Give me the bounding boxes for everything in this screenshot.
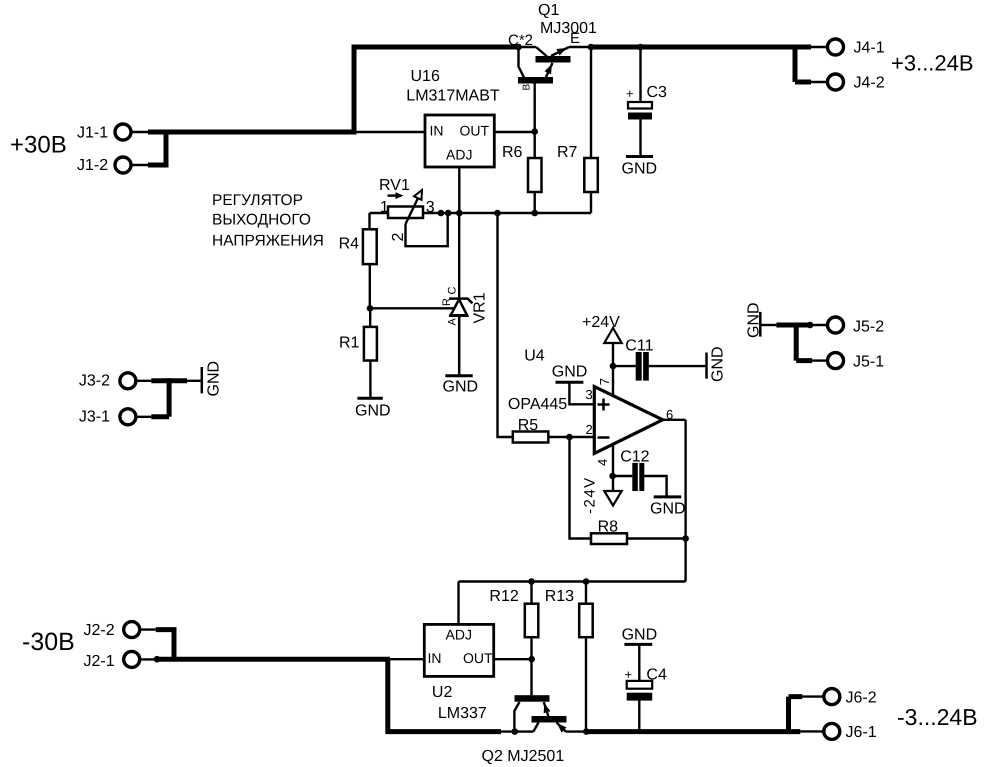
wire output vertical [684,420,686,582]
svg-text:НАПРЯЖЕНИЯ: НАПРЯЖЕНИЯ [212,233,324,250]
wire rail thin segment Q1 emitter to R7 [569,46,591,48]
wire thick drop to bottom rail [388,659,501,734]
svg-text:ВЫХОДНОГО: ВЫХОДНОГО [212,212,311,229]
wire J5-2 thin stub [810,324,828,326]
node inverting input junction [566,434,573,441]
wire U2 IN thin [390,658,424,660]
wire J5-1 thin stub [812,359,827,361]
wire pin7 vertical [612,336,614,396]
wire J6-2 thin stub [802,695,824,697]
svg-text:R7: R7 [557,144,578,161]
svg-text:LM337: LM337 [438,705,487,722]
value LM337 [438,705,487,722]
wire J5 thick elbow [796,323,812,361]
svg-text:GND: GND [622,627,658,644]
power -24V arrow [604,491,621,506]
node -3...24V output label [897,704,978,730]
svg-text:U2: U2 [432,684,453,701]
node VR1 cathode junction [456,210,463,217]
pin label IN U16 [430,123,444,139]
connector J4-2 [828,74,885,92]
wire C12 right elbow [644,476,666,497]
svg-text:R13: R13 [545,588,574,605]
svg-text:J6-2: J6-2 [846,690,877,707]
resistor R13 [545,588,593,637]
wire R1 bottom [369,361,371,399]
wire pin4 vertical [612,444,614,499]
wire J4 thick elbow [795,45,811,83]
op-amp U4 triangle [594,387,662,454]
wire J5 ground thin stub [762,324,777,326]
shunt regulator VR1 [449,299,472,376]
op-amp U2 LM337 box [424,624,493,676]
svg-text:VR1: VR1 [472,292,489,323]
pin number 3 [586,387,593,402]
wire bottom rail thin left [501,730,533,732]
svg-text:R12: R12 [489,588,518,605]
svg-text:C11: C11 [625,338,653,355]
connector J5-1 [828,353,885,371]
svg-text:-3...24В: -3...24В [897,704,978,730]
resistor R12 [489,588,538,637]
svg-text:MJ3001: MJ3001 [540,20,597,37]
label VR1 rotated [472,292,489,323]
svg-text:2: 2 [586,422,593,437]
node +30V input label [10,132,67,159]
pin number 2 RV1 rotated [390,233,407,242]
svg-text:-24V: -24V [582,476,599,514]
svg-text:U16: U16 [411,68,440,85]
power +24V arrow [604,328,621,343]
node C3 rail junction [637,44,644,51]
node R8 output junction [682,535,689,542]
connector J2-2 [84,622,140,639]
svg-text:+24V: +24V [582,314,620,331]
wire U16 OUT [494,131,534,133]
value OPA445 [508,396,567,413]
transistor Q2 MJ2501 [514,695,566,732]
label U2 [432,684,453,701]
wire C12 left [613,475,633,477]
resistor R6 [502,144,542,192]
svg-text:3: 3 [426,199,435,216]
wire J6 thick elbow [789,697,803,735]
svg-text:C12: C12 [620,449,649,466]
connector J5-2 [828,317,885,336]
svg-text:LM317MABT: LM317MABT [406,88,500,105]
wire J3 to ground thin [187,380,201,382]
connector J2-1 [84,651,140,670]
pin label ADJ U2 [446,627,472,643]
wire VR1 reference [370,307,455,309]
node Q1 collector junction [515,44,522,51]
pin label OUT U2 [463,650,493,666]
label Q1 [538,2,559,19]
wire bottom rail thick to J6 [586,729,800,734]
connector J3-2 [79,373,136,390]
node Q2 collector junction [512,728,519,735]
pin label B rotated [522,84,533,91]
svg-text:OPA445: OPA445 [508,396,567,413]
svg-text:J1-2: J1-2 [77,157,108,174]
node pin4 C12 junction [609,473,616,480]
wire pin6 output [663,419,686,421]
svg-text:J5-1: J5-1 [853,354,884,371]
wire pin2 into op-amp [570,436,595,438]
node R4 R1 VR1 junction [367,305,374,312]
wire Q1 base / R6 top [534,132,536,159]
node R5 branch junction [494,210,501,217]
connector J6-1 [824,723,877,741]
wire J3-2 thick segment [151,378,187,383]
svg-text:-30В: -30В [22,628,75,656]
ground VR1 [443,376,479,396]
op-amp U16 LM317 box [425,115,494,167]
op-amp plus sign [598,399,610,411]
svg-text:J4-2: J4-2 [854,75,885,92]
pin number 1 RV1 [380,199,389,216]
wire J1-1 thick bus to riser [148,130,354,135]
wire J4-1 thin stub [808,46,828,48]
svg-text:Q1: Q1 [538,2,559,19]
svg-text:C*2: C*2 [508,32,533,49]
svg-text:1: 1 [380,199,389,216]
pin number 2 [586,422,593,437]
wire R8 left branch [570,437,592,539]
transistor Q1 MJ3001 [518,47,571,132]
wire J1-2 thin stub [131,164,149,166]
wire J3 thick elbow [151,378,169,417]
connector J1-2 [77,157,131,174]
pin number 7 rotated [597,378,612,385]
svg-text:ADJ: ADJ [446,147,472,163]
wire J1-2 thick elbow [148,130,166,168]
value MJ3001 [540,20,597,37]
svg-text:R: R [441,298,453,306]
connector J3-1 [79,408,136,425]
svg-text:+: + [626,86,634,101]
svg-text:J1-1: J1-1 [77,125,108,142]
potentiometer RV1 [388,190,448,246]
node R6 OUT junction [531,128,538,135]
connector J4-1 [828,39,885,57]
wire U16 IN [354,131,425,133]
label +24V [582,314,620,331]
svg-text:C3: C3 [647,84,668,101]
wire J3-2 thin stub [135,380,151,382]
svg-text:OUT: OUT [463,650,493,666]
ground pin3 [552,364,588,383]
node pin7 C11 junction [610,363,617,370]
wire C4 bottom [638,701,640,732]
title text РЕГУЛЯТОР ВЫХОДНОГО НАПРЯЖЕНИЯ [212,192,324,250]
svg-text:J5-2: J5-2 [853,319,884,336]
wire C3 bottom [639,120,641,157]
wire bottom rail thin right [566,730,587,732]
svg-text:A: A [447,318,459,326]
svg-text:GND: GND [206,361,223,397]
wire VR1 cathode [458,213,460,299]
label Q2 MJ2501 [482,748,565,765]
resistor R4 [339,229,377,264]
pin number 6 [666,407,673,422]
wire R7 top [590,47,592,158]
wire J1-1 thin stub [131,131,149,133]
wire J4-2 thin stub [811,81,828,83]
connector J1-1 [77,124,131,142]
svg-text:C: C [447,287,459,295]
svg-text:B: B [522,84,533,91]
ground C11 [707,346,727,382]
svg-text:3: 3 [586,387,593,402]
svg-text:J3-1: J3-1 [79,408,110,425]
pin label A VR1 rotated [447,318,459,326]
wire R13 top [585,582,587,604]
wire J2 thick bus to U2 [157,657,390,662]
wire feedback rail horizontal [459,580,686,582]
svg-text:E: E [570,30,580,47]
wire C11 left [613,365,636,367]
node J2-1 wire start [154,656,161,663]
svg-text:J6-1: J6-1 [846,724,877,741]
label RV1 adjust arrow [388,192,404,199]
capacitor C11 [625,338,653,381]
connector J6-2 [824,689,877,707]
wire R7 bottom [590,192,592,213]
svg-text:+30В: +30В [10,132,67,159]
ground C4 [622,627,658,645]
pin number 4 rotated [595,459,610,466]
svg-text:РЕГУЛЯТОР: РЕГУЛЯТОР [212,192,303,209]
svg-text:4: 4 [595,459,610,466]
wire R12 bottom to Q2 base [530,637,532,695]
wire C11 right [649,365,706,367]
resistor R8 [591,519,627,545]
svg-text:J3-2: J3-2 [79,373,110,390]
node U2 OUT R12 junction [528,656,535,663]
pin label OUT U16 [460,123,490,139]
wire R8 right [627,537,686,539]
wire J6-1 thin stub [800,730,824,732]
svg-text:J2-2: J2-2 [84,622,115,639]
svg-text:R6: R6 [502,144,523,161]
node -30V input label [22,628,75,656]
wire R12 top [530,582,532,604]
svg-text:R1: R1 [339,334,360,351]
pin label ADJ U16 [446,147,472,163]
svg-text:R5: R5 [518,417,539,434]
label U16 [411,68,440,85]
value LM317MABT [406,88,500,105]
label -24V rotated [582,476,599,514]
wire thick riser to top rail [352,45,357,135]
svg-text:+3...24В: +3...24В [891,51,974,76]
svg-text:7: 7 [597,378,612,385]
node R12 top junction [528,578,535,585]
pin number 3 RV1 [426,199,435,216]
svg-text:GND: GND [443,379,479,396]
svg-text:GND: GND [710,346,727,382]
node RV1 wiper junction [445,210,452,217]
pin label C VR1 rotated [447,287,459,295]
wire R4 bottom [369,264,371,308]
wire R5 branch vertical [498,213,513,437]
svg-text:GND: GND [552,364,588,381]
svg-text:OUT: OUT [460,123,490,139]
resistor R1 [339,327,377,361]
wire J3-1 thin stub [135,416,151,418]
svg-text:R4: R4 [339,236,360,253]
node R7 rail junction [588,44,595,51]
resistor R5 [513,417,549,443]
pin label E [570,30,580,47]
node R13 top junction [583,578,590,585]
svg-text:GND: GND [745,302,762,338]
wire C3 top [639,47,641,102]
wire U2 OUT [494,658,532,660]
capacitor C12 [620,449,649,492]
svg-text:U4: U4 [524,348,545,365]
svg-text:IN: IN [428,650,442,666]
wire rail thin segment at Q1 [518,46,536,48]
wire C4 top [638,644,640,681]
wire R6 bottom [534,192,536,213]
svg-text:J2-1: J2-1 [84,653,115,670]
pin label R VR1 rotated [441,298,453,306]
svg-text:GND: GND [355,403,391,420]
label RV1 [379,177,410,194]
wire U2 ADJ vertical [457,582,459,625]
wire R5 to pin2 [548,436,569,438]
svg-text:R8: R8 [598,519,619,536]
wire J5-2 thick segment [776,323,810,328]
ground J3 [202,361,223,397]
pin label IN U2 [428,650,442,666]
resistor R7 [557,144,598,192]
node RV1 pin3 junction [438,210,445,217]
ground C3 [622,157,658,178]
wire J2-2 thin stub [139,628,156,630]
wire RV1 pin1 down to R4 [368,213,370,229]
wire J2-2 thick elbow [156,627,177,659]
svg-text:Q2 MJ2501: Q2 MJ2501 [482,748,565,765]
wire ADJ net horizontal [370,212,592,214]
capacitor C4 [625,667,667,701]
svg-text:2: 2 [390,233,407,242]
node J5-2 wire end [807,322,814,329]
capacitor C3 [626,84,667,120]
svg-text:J4-1: J4-1 [854,40,885,57]
ground R1 [355,398,391,419]
svg-text:+: + [625,667,633,682]
wire pin3 from ground [569,382,594,404]
wire top rail thick right segment [591,45,811,50]
wire J2-1 thin stub [139,658,157,660]
label U4 [524,348,545,365]
svg-text:ADJ: ADJ [446,627,472,643]
wire R13 bottom [585,637,587,731]
wire top rail thick left segment [352,45,519,50]
svg-text:GND: GND [650,501,686,518]
wire R1 top [369,308,371,327]
svg-text:RV1: RV1 [379,177,410,194]
node R6 bottom junction [531,210,538,217]
ground J5 [745,302,762,338]
node R13 rail junction [583,728,590,735]
ground C12 [650,497,686,518]
op-amp minus sign [598,436,610,439]
svg-text:GND: GND [622,161,658,178]
svg-text:IN: IN [430,123,444,139]
wire U16 ADJ [458,167,460,213]
pin label C*2 [508,32,533,49]
node +3...24V output label [891,51,974,76]
